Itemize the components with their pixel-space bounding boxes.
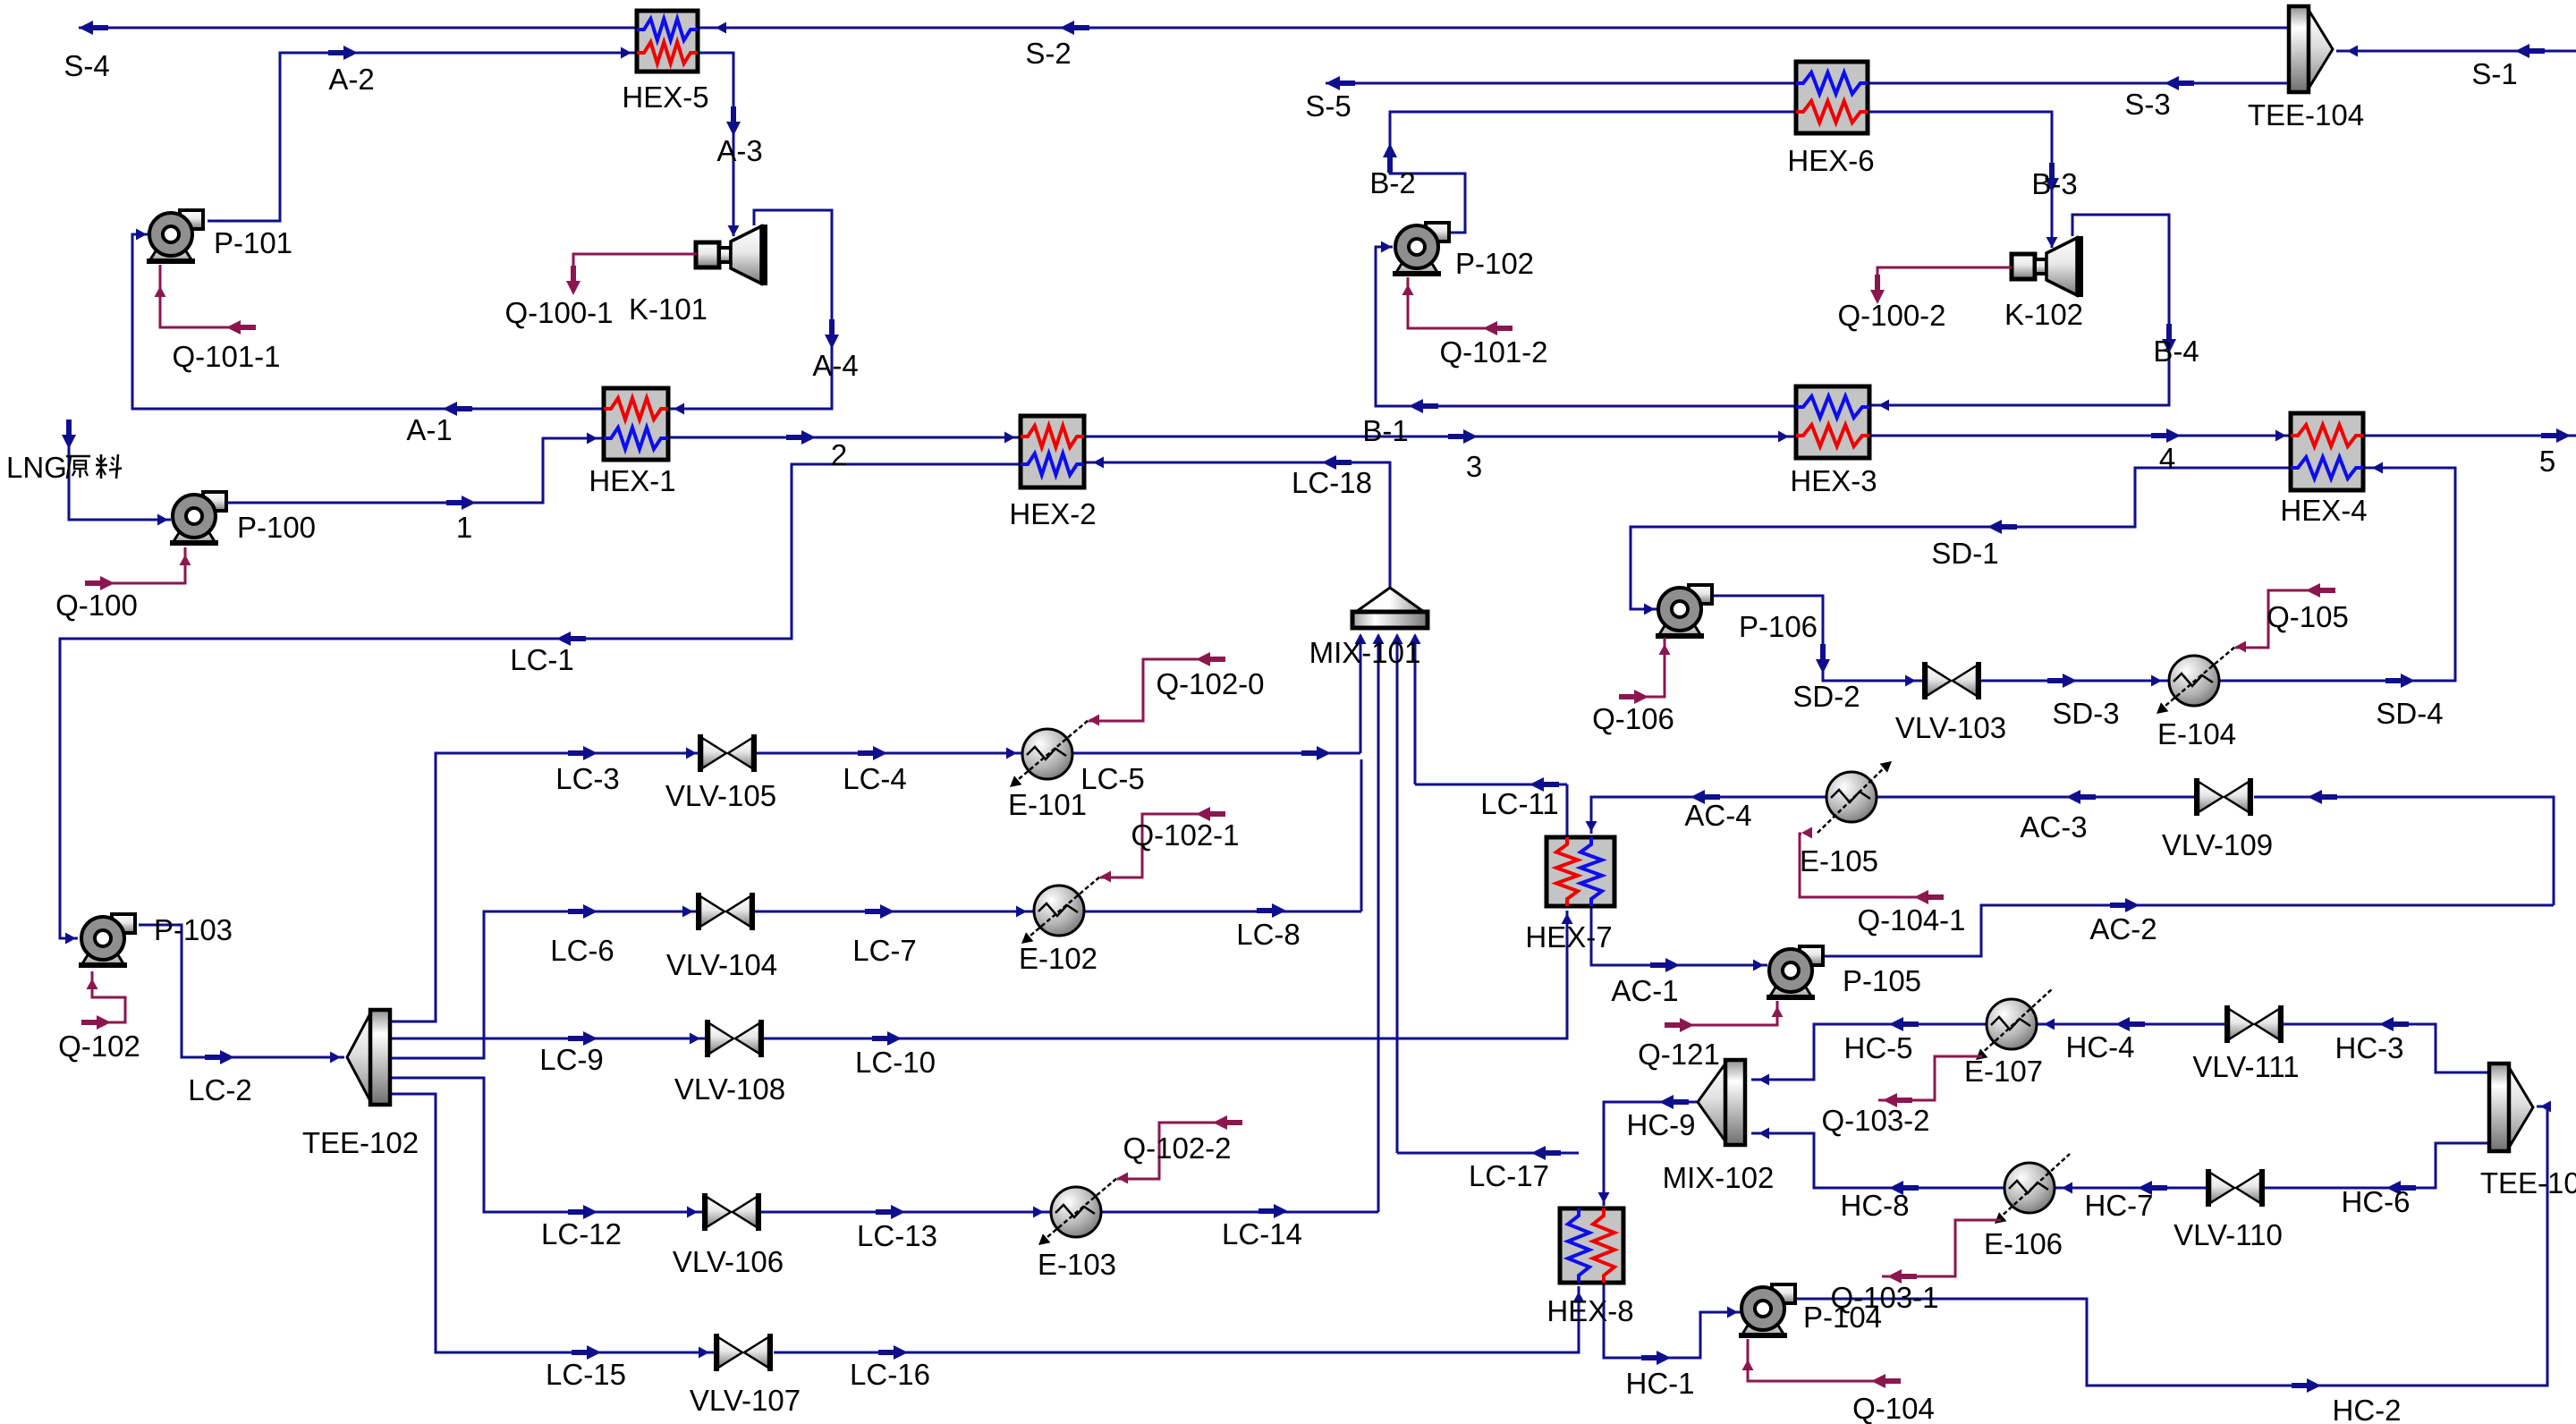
svg-text:S-2: S-2 xyxy=(1025,37,1071,70)
svg-text:B-4: B-4 xyxy=(2153,335,2199,368)
wire stream 4 HEX-3 to HEX-4 xyxy=(1869,435,2291,437)
valve VLV-104 xyxy=(699,893,752,930)
heat exchanger HEX-4 xyxy=(2291,413,2363,490)
svg-text:E-104: E-104 xyxy=(2157,717,2236,750)
svg-text:Q-105: Q-105 xyxy=(2267,600,2349,633)
svg-text:HC-5: HC-5 xyxy=(1843,1031,1912,1064)
wire A-1 HEX-1 to P-101 xyxy=(132,234,604,409)
heat exchanger HEX-6 xyxy=(1796,62,1868,133)
svg-text:A-3: A-3 xyxy=(716,134,762,167)
wire HC-1 HEX-8 to P-104 xyxy=(1604,1283,1741,1358)
svg-text:LC-14: LC-14 xyxy=(1222,1217,1302,1250)
pump P-103 xyxy=(79,914,135,965)
compressor K-101 xyxy=(696,225,764,285)
svg-text:LC-13: LC-13 xyxy=(857,1219,937,1252)
valve VLV-106 xyxy=(705,1193,758,1231)
heat exchanger HEX-5 xyxy=(637,11,698,72)
svg-text:TEE-104: TEE-104 xyxy=(2248,98,2364,131)
svg-text:Q-102-2: Q-102-2 xyxy=(1123,1132,1231,1165)
svg-text:MIX-102: MIX-102 xyxy=(1663,1161,1775,1194)
tee TEE-103 xyxy=(2489,1064,2533,1151)
svg-text:K-102: K-102 xyxy=(2004,298,2083,331)
svg-text:Q-102-1: Q-102-1 xyxy=(1131,818,1239,852)
svg-text:A-1: A-1 xyxy=(406,413,452,446)
svg-text:HEX-4: HEX-4 xyxy=(2280,494,2367,527)
wire AC-2 P-105 to AC riser xyxy=(1823,905,2554,956)
wire LC-6/LC-7/LC-8 row TEE-102 through VLV-104 and E-102 to MIX-101 xyxy=(390,911,699,1058)
svg-text:VLV-106: VLV-106 xyxy=(673,1245,784,1278)
energy stream Q-103-1 into E-106 xyxy=(1998,1154,2070,1219)
svg-text:3: 3 xyxy=(1466,450,1482,483)
svg-text:P-103: P-103 xyxy=(154,913,233,946)
svg-text:S-3: S-3 xyxy=(2124,88,2170,121)
svg-text:HEX-3: HEX-3 xyxy=(1790,464,1877,497)
svg-text:4: 4 xyxy=(2159,442,2175,475)
wire SD-2 SD-3 SD-4 row through VLV-103 and E-104 xyxy=(1712,596,1923,681)
exchanger sphere E-106 xyxy=(2004,1163,2055,1213)
wire MIX-101 riser LC-17 xyxy=(1396,635,1399,1153)
svg-text:B-3: B-3 xyxy=(2031,167,2077,200)
wire HC-9 MIX-102 to HEX-8 xyxy=(1604,1102,1697,1206)
svg-text:LC-15: LC-15 xyxy=(546,1358,626,1391)
svg-text:LC-4: LC-4 xyxy=(843,762,907,795)
svg-text:VLV-111: VLV-111 xyxy=(2192,1050,2299,1083)
svg-text:VLV-104: VLV-104 xyxy=(666,948,777,981)
svg-text:P-102: P-102 xyxy=(1455,247,1534,280)
svg-text:Q-103-2: Q-103-2 xyxy=(1821,1104,1929,1137)
svg-text:P-105: P-105 xyxy=(1843,964,1921,997)
svg-text:Q-101-2: Q-101-2 xyxy=(1439,335,1547,369)
wire HC-2 P-104 to TEE-103 xyxy=(1795,1106,2547,1386)
svg-text:LC-9: LC-9 xyxy=(539,1043,604,1076)
wire HC-3 TEE-103 to VLV-111 xyxy=(2283,1024,2489,1072)
pump P-100 xyxy=(170,492,226,543)
svg-text:HC-1: HC-1 xyxy=(1625,1367,1694,1400)
wire A-4 K-101 to HEX-1 xyxy=(670,210,832,409)
tee MIX-102 xyxy=(1698,1060,1745,1145)
heat exchanger HEX-3 xyxy=(1796,386,1869,458)
valve VLV-103 xyxy=(1925,662,1979,699)
svg-text:2: 2 xyxy=(831,438,847,471)
valve VLV-108 xyxy=(708,1020,761,1057)
mixer inlet arrows MIX-101 xyxy=(1355,633,1367,644)
energy stream Q-105 out of E-104 xyxy=(2160,647,2235,710)
svg-text:HC-4: HC-4 xyxy=(2065,1030,2134,1064)
energy stream Q-104 into P-104 xyxy=(1748,1339,1890,1381)
svg-text:Q-121: Q-121 xyxy=(1638,1038,1720,1071)
wire stream 3 HEX-2 to HEX-3 xyxy=(1084,436,1796,438)
valve VLV-111 xyxy=(2227,1005,2281,1043)
svg-text:E-105: E-105 xyxy=(1800,844,1878,877)
wire LNG feed into P-100 xyxy=(69,436,171,520)
svg-text:LNG: LNG xyxy=(6,451,67,484)
valve VLV-110 xyxy=(2208,1169,2262,1207)
wire stream 1 P-100 to HEX-1 xyxy=(226,438,602,503)
svg-text:P-106: P-106 xyxy=(1739,610,1818,643)
pump P-104 xyxy=(1739,1284,1795,1335)
svg-text:LC-17: LC-17 xyxy=(1469,1159,1549,1192)
energy stream Q-100-2 out of K-102 xyxy=(1877,267,2012,282)
wire SD-1 HEX-4 to P-106 xyxy=(1631,468,2291,609)
svg-text:HC-7: HC-7 xyxy=(2084,1189,2153,1222)
valve VLV-105 xyxy=(700,734,754,772)
wire B-4 K-102 to HEX-3 xyxy=(1871,215,2169,405)
wire AC-4/AC-3 row into HEX-7 through E-105 and VLV-109 xyxy=(2254,797,2554,905)
wire LC-1 HEX-2 to P-103 xyxy=(60,464,1021,938)
svg-text:A-2: A-2 xyxy=(328,63,374,96)
wire S-3 TEE-104 to HEX-6 xyxy=(1867,82,2289,85)
exchanger sphere E-102 xyxy=(1034,886,1084,936)
wire stream 5 out of HEX-4 xyxy=(2363,435,2576,437)
wire S-2/S-4 top line from TEE-104 through HEX-5 xyxy=(698,27,2289,30)
tee TEE-104 xyxy=(2289,6,2333,92)
wire A-2 P-101 to HEX-5 xyxy=(208,53,637,221)
svg-text:LC-10: LC-10 xyxy=(855,1046,936,1079)
svg-text:HEX-6: HEX-6 xyxy=(1787,144,1874,177)
svg-text:Q-101-1: Q-101-1 xyxy=(172,340,280,373)
svg-text:1: 1 xyxy=(456,511,472,544)
wire stream 2 HEX-1 to HEX-2 xyxy=(668,437,1021,439)
exchanger sphere E-104 xyxy=(2169,656,2219,706)
wire MIX-101 riser LC-5/LC-8 xyxy=(1360,635,1362,753)
wire S-5 out of HEX-6 xyxy=(1326,82,1796,85)
energy stream Q-121 into P-105 xyxy=(1674,1001,1777,1025)
wire LC-12/LC-13/LC-14 row TEE-102 through VLV-106 and E-103 to MIX-101 xyxy=(390,1078,705,1212)
exchanger sphere E-103 xyxy=(1051,1187,1101,1237)
svg-text:AC-4: AC-4 xyxy=(1684,799,1751,832)
svg-text:HC-2: HC-2 xyxy=(2332,1394,2401,1424)
svg-text:P-104: P-104 xyxy=(1803,1301,1882,1334)
pump P-106 xyxy=(1656,585,1712,636)
svg-text:LC-8: LC-8 xyxy=(1236,918,1301,951)
svg-text:LC-18: LC-18 xyxy=(1292,466,1372,499)
exchanger sphere E-107 xyxy=(1987,999,2037,1049)
svg-text:LC-6: LC-6 xyxy=(550,934,614,967)
svg-text:VLV-109: VLV-109 xyxy=(2162,828,2273,861)
svg-text:VLV-110: VLV-110 xyxy=(2173,1218,2283,1251)
tee TEE-102 xyxy=(347,1010,390,1105)
svg-text:MIX-101: MIX-101 xyxy=(1309,636,1421,669)
wire A-3 HEX-5 to K-101 xyxy=(698,53,733,236)
svg-text:AC-3: AC-3 xyxy=(2020,810,2087,843)
heat exchanger HEX-1 xyxy=(604,388,668,460)
wire S-1 into TEE-104 xyxy=(2336,50,2576,53)
energy stream Q-106 into P-106 xyxy=(1631,638,1665,697)
energy stream Q-103-2 into E-107 xyxy=(1979,988,2053,1055)
svg-text:E-101: E-101 xyxy=(1008,788,1087,821)
svg-text:E-106: E-106 xyxy=(1984,1227,2063,1260)
exchanger sphere E-101 xyxy=(1022,729,1072,779)
svg-text:VLV-108: VLV-108 xyxy=(674,1072,785,1106)
svg-text:S-1: S-1 xyxy=(2471,57,2517,90)
pump P-102 xyxy=(1393,223,1449,274)
wire B-2 P-102 to HEX-6 xyxy=(1390,112,1796,233)
svg-text:Q-102-0: Q-102-0 xyxy=(1156,667,1264,700)
svg-text:SD-1: SD-1 xyxy=(1931,537,1998,570)
svg-text:HEX-5: HEX-5 xyxy=(622,81,708,114)
heat exchanger HEX-8 xyxy=(1560,1208,1623,1283)
svg-text:S-5: S-5 xyxy=(1305,89,1351,123)
svg-text:S-4: S-4 xyxy=(64,49,109,82)
wire LC-9/LC-10 row TEE-102 through VLV-108 to HEX-7 xyxy=(390,1038,708,1040)
wire LC-18 MIX-101 to HEX-2 xyxy=(1086,462,1390,589)
svg-text:HEX-2: HEX-2 xyxy=(1009,497,1096,530)
svg-text:P-101: P-101 xyxy=(214,226,292,259)
svg-text:TEE-102: TEE-102 xyxy=(302,1126,419,1159)
energy stream Q-100 into P-100 xyxy=(89,547,185,583)
svg-text:SD-4: SD-4 xyxy=(2376,697,2443,730)
wire LC-15/LC-16 row TEE-102 through VLV-107 to HEX-8 xyxy=(390,1094,716,1352)
svg-text:VLV-105: VLV-105 xyxy=(665,779,776,812)
svg-text:TEE-103: TEE-103 xyxy=(2480,1166,2576,1199)
mixer MIX-101 xyxy=(1352,588,1428,628)
svg-text:LC-11: LC-11 xyxy=(1480,787,1558,820)
wire LC-11 HEX-7 to MIX-101 xyxy=(1415,784,1567,786)
svg-text:E-103: E-103 xyxy=(1038,1248,1116,1281)
wire HC-4 VLV-111 to E-107 xyxy=(2037,1023,2225,1026)
svg-text:LC-5: LC-5 xyxy=(1080,762,1145,795)
wire HC-6 TEE-103 to VLV-110 xyxy=(2264,1143,2489,1188)
svg-text:B-2: B-2 xyxy=(1369,166,1415,199)
svg-text:HEX-7: HEX-7 xyxy=(1525,920,1612,954)
svg-text:Q-102: Q-102 xyxy=(58,1030,140,1063)
energy stream Q-100-1 out of K-101 xyxy=(573,254,697,273)
wire LC-2 P-103 to TEE-102 xyxy=(139,925,344,1057)
svg-text:LC-1: LC-1 xyxy=(510,643,574,676)
energy stream Q-101-2 into P-102 xyxy=(1408,277,1512,328)
wire MIX-101 riser LC-11 xyxy=(1414,635,1417,784)
svg-text:B-1: B-1 xyxy=(1362,414,1408,447)
svg-text:A-4: A-4 xyxy=(812,349,858,382)
svg-text:E-107: E-107 xyxy=(1964,1055,2043,1088)
svg-text:Q-100-2: Q-100-2 xyxy=(1837,299,1945,332)
wire LC-17 HEX-8 to MIX-101 xyxy=(1397,1152,1579,1155)
svg-text:K-101: K-101 xyxy=(629,292,708,326)
compressor K-102 xyxy=(2012,236,2080,297)
valve VLV-109 xyxy=(2197,778,2250,816)
svg-text:AC-1: AC-1 xyxy=(1611,974,1678,1007)
svg-text:SD-2: SD-2 xyxy=(1792,680,1860,713)
svg-text:5: 5 xyxy=(2539,445,2555,478)
svg-text:LC-3: LC-3 xyxy=(555,762,620,795)
wire HC-5 E-107 to MIX-102 xyxy=(1751,1024,1987,1080)
svg-text:HC-3: HC-3 xyxy=(2334,1031,2403,1064)
svg-text:SD-3: SD-3 xyxy=(2052,697,2119,730)
svg-text:E-102: E-102 xyxy=(1019,942,1097,975)
wire AC-1 HEX-7 to P-105 xyxy=(1591,906,1767,965)
wire LC-3/LC-4/LC-5 row TEE-102 to E-101 to MIX-101 xyxy=(390,753,702,1021)
svg-text:HEX-1: HEX-1 xyxy=(589,464,675,497)
energy stream Q-102-0 out of E-101 xyxy=(1013,720,1089,784)
valve VLV-107 xyxy=(716,1334,770,1371)
svg-text:P-100: P-100 xyxy=(237,511,316,544)
heat exchanger HEX-7 xyxy=(1546,837,1614,906)
svg-text:LC-7: LC-7 xyxy=(852,934,917,967)
pump P-101 xyxy=(147,210,203,261)
svg-text:Q-100-1: Q-100-1 xyxy=(504,296,613,329)
energy stream Q-102-2 out of E-103 xyxy=(1042,1178,1117,1242)
svg-text:HC-8: HC-8 xyxy=(1840,1189,1909,1222)
wire B-1 HEX-3 to P-102 xyxy=(1376,247,1796,406)
energy stream Q-102 into P-103 xyxy=(92,971,125,1022)
svg-text:LC-16: LC-16 xyxy=(850,1358,930,1391)
svg-text:LC-2: LC-2 xyxy=(188,1073,252,1106)
svg-text:HEX-8: HEX-8 xyxy=(1546,1294,1633,1327)
svg-text:Q-104-1: Q-104-1 xyxy=(1857,903,1965,937)
svg-text:LC-12: LC-12 xyxy=(541,1217,622,1250)
energy stream Q-104-1 into E-105 xyxy=(1818,765,1887,833)
energy stream Q-102-1 out of E-102 xyxy=(1025,877,1100,940)
svg-text:VLV-107: VLV-107 xyxy=(690,1384,801,1417)
wire B-3 HEX-6 to K-102 xyxy=(1868,112,2052,248)
svg-text:Q-106: Q-106 xyxy=(1592,702,1674,735)
svg-text:HC-9: HC-9 xyxy=(1626,1108,1695,1141)
exchanger sphere E-105 xyxy=(1826,772,1877,822)
svg-text:Q-104: Q-104 xyxy=(1852,1392,1935,1424)
wire HC-8 E-106 to MIX-102 xyxy=(1751,1133,2004,1188)
svg-text:HC-6: HC-6 xyxy=(2341,1185,2410,1218)
heat exchanger HEX-2 xyxy=(1021,416,1084,487)
energy stream Q-101-1 into P-101 xyxy=(160,265,252,327)
wire MIX-101 riser LC-14 xyxy=(1377,635,1380,1212)
svg-text:AC-2: AC-2 xyxy=(2089,912,2157,945)
pump P-105 xyxy=(1767,946,1823,997)
wire HC-7 VLV-110 to E-106 xyxy=(2055,1187,2207,1190)
svg-text:Q-100: Q-100 xyxy=(55,589,138,622)
svg-text:VLV-103: VLV-103 xyxy=(1895,711,2006,744)
